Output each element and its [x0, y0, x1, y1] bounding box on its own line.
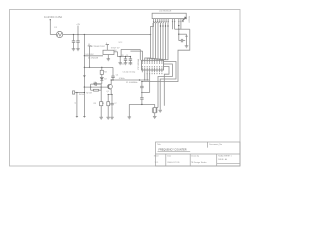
wire pin down to c5 — [142, 72, 150, 92]
regulator U2 body — [103, 50, 114, 54]
wire osc bottom — [129, 103, 154, 105]
title block value drawn — [191, 161, 207, 164]
resistor R5 vertical — [185, 36, 187, 45]
svg-text:9-12VDC 0.25A: 9-12VDC 0.25A — [44, 15, 62, 19]
wire R3 drop — [100, 87, 102, 102]
ground C7 — [110, 117, 114, 119]
wire collector rail — [111, 79, 149, 81]
ground C1 — [72, 49, 76, 51]
capacitor C4 — [111, 74, 118, 80]
ground C10 — [129, 63, 133, 65]
title block label Drawn — [191, 156, 199, 158]
svg-text:100n: 100n — [128, 64, 132, 66]
junction collector — [112, 79, 113, 80]
IC U1 inner top pin stubs — [142, 60, 162, 62]
power bar 5V mid — [88, 44, 92, 46]
title block label Document — [209, 143, 222, 146]
label VCC net — [119, 42, 123, 44]
wire input gnd drop — [76, 93, 78, 117]
svg-text:R4: R4 — [104, 71, 106, 73]
label C8 C9 values — [121, 55, 128, 57]
junction rail-reg — [84, 34, 85, 35]
wire top right horizontal — [175, 28, 190, 30]
junction feed low — [83, 75, 86, 77]
title block grid — [156, 142, 241, 166]
junction R4-D2 — [101, 78, 102, 79]
power arrow VCC right — [182, 17, 186, 21]
label VOUT — [111, 48, 120, 50]
regulator ground pin — [107, 55, 109, 59]
capacitor C5 — [140, 82, 143, 93]
capacitor C2 — [76, 35, 79, 49]
junction osc bottom — [141, 104, 142, 105]
ground crystal — [153, 117, 157, 119]
label C10 value — [121, 64, 132, 66]
wire crystal link — [156, 107, 158, 109]
capacitor C7 — [110, 95, 113, 107]
wire pin1 long vertical — [145, 20, 154, 60]
svg-text:Document_Nu: Document_Nu — [209, 143, 222, 146]
IC U1 pin numbers top — [142, 63, 162, 64]
IC U1 vertical label — [137, 58, 140, 69]
IC U1 pin numbers bottom — [142, 66, 162, 67]
wire cap branch — [112, 67, 114, 73]
junction p13 c — [178, 34, 179, 35]
junction 5V-c8 — [120, 56, 121, 57]
title block label Date — [167, 155, 171, 158]
svg-text:MC78L05/TO92: MC78L05/TO92 — [91, 46, 106, 48]
junction rail-c5 — [139, 79, 140, 80]
fuse F1 — [55, 27, 63, 38]
junction 5V mid — [89, 67, 90, 68]
wire input to fuse — [50, 34, 56, 36]
label C7 value — [114, 103, 116, 105]
ground R3 — [99, 117, 103, 119]
net label +9V stub — [76, 24, 80, 35]
title block label Title — [157, 143, 162, 146]
wire pin11 down — [174, 20, 176, 29]
svg-text:4 MHz: 4 MHz — [119, 78, 125, 80]
title block value sheet — [155, 162, 160, 164]
wire VCC to IC upper — [121, 49, 140, 56]
IC U1 pin numbers below — [147, 73, 163, 74]
wire input signal — [75, 92, 85, 94]
title block schematic title — [159, 149, 187, 152]
svg-text:9-12VDC: 9-12VDC — [86, 54, 95, 56]
svg-text:C3: C3 — [94, 82, 96, 84]
junction input node2 — [84, 92, 85, 93]
diode D2 — [100, 74, 106, 83]
junction rail-w — [141, 81, 142, 82]
label 9-12VDC supply input — [44, 15, 62, 19]
label R6 value — [102, 103, 104, 105]
svg-text:C7: C7 — [114, 103, 116, 105]
svg-text:KICAD SHEET 1: KICAD SHEET 1 — [218, 154, 231, 157]
label D1 net — [88, 57, 99, 59]
wire emitter — [110, 89, 112, 94]
crystal X1 — [152, 104, 157, 116]
IC U1 osc pin wire a — [144, 72, 145, 80]
resistor R6 — [107, 95, 110, 106]
junction mid-R4 — [101, 67, 102, 68]
resistor R2 bottom branch — [86, 87, 101, 94]
label input net — [79, 94, 85, 96]
svg-text:R3: R3 — [94, 103, 96, 105]
svg-text:Q1: Q1 — [106, 91, 109, 93]
crystal X1 label — [126, 82, 138, 84]
svg-text:R2 1M: R2 1M — [86, 92, 92, 94]
wire pin10 down — [172, 20, 174, 29]
label 4MHz — [119, 78, 125, 80]
wire 5V mid vertical — [89, 46, 91, 68]
wire VCC corner to pin14 — [139, 49, 141, 60]
capacitor C10 — [129, 57, 132, 63]
wire wrap outer — [142, 29, 190, 81]
junction p13 a — [178, 25, 179, 26]
connector J2 body — [152, 13, 186, 18]
wire emitter bar — [108, 94, 112, 96]
page border frame — [10, 10, 241, 167]
capacitor C6 — [140, 93, 143, 105]
connector J1 input — [73, 91, 75, 94]
junction bus dots — [160, 25, 169, 26]
capacitor C11 horizontal — [179, 39, 185, 42]
label LCD MODULE — [159, 11, 172, 13]
IC U1 osc pin wire b — [147, 72, 148, 80]
wire wrap inner2 — [164, 67, 170, 106]
svg-text:J1: J1 — [75, 102, 77, 104]
svg-text:J2CON14: J2CON14 — [189, 16, 191, 23]
svg-text:TB Design Studio: TB Design Studio — [191, 161, 207, 164]
resistor R3 — [94, 102, 103, 106]
wire input vertical — [49, 20, 51, 35]
label J1 vertical — [75, 102, 77, 104]
ground arrow input — [76, 116, 79, 118]
wire pin13 down — [178, 20, 180, 40]
svg-text:8: 8 — [106, 43, 107, 45]
junction rc right — [101, 86, 102, 87]
svg-text:X1 4.000MHz: X1 4.000MHz — [126, 82, 138, 84]
title block title underline — [158, 151, 191, 153]
junction 5V-c9 — [125, 56, 126, 57]
ground R6 — [106, 117, 110, 119]
wire rail down to regulator — [83, 35, 85, 56]
capacitor C9 — [124, 57, 127, 63]
wire input line — [84, 86, 107, 88]
junction p13 b — [178, 29, 179, 30]
ground osc left — [128, 117, 132, 119]
title block revision line2 — [218, 158, 227, 161]
svg-text:Drawn by: Drawn by — [191, 156, 199, 158]
junction feed mid — [84, 67, 85, 68]
junction rc left — [90, 86, 91, 87]
ground C8 — [118, 63, 122, 65]
ground D2 — [94, 82, 96, 85]
label osc caps — [123, 72, 136, 74]
resistor R4 — [100, 67, 107, 74]
svg-text:C5 22p C6 22p: C5 22p C6 22p — [123, 72, 136, 74]
ground wrap mid — [158, 110, 162, 112]
wire collector — [111, 79, 112, 84]
ground C9 — [124, 63, 128, 65]
ground C2 — [76, 49, 80, 51]
wire pin14 down — [180, 20, 182, 29]
svg-text:C4: C4 — [116, 74, 118, 76]
junction rail-C2 — [77, 34, 78, 35]
svg-text:FREQUENCY COUNTER: FREQUENCY COUNTER — [159, 149, 187, 152]
connector J2 vertical name — [189, 16, 191, 23]
svg-text:2006-OCT-26: 2006-OCT-26 — [167, 162, 180, 164]
wire VDD second line — [130, 51, 142, 60]
wire 5V node — [118, 56, 131, 58]
ground right cluster — [185, 46, 189, 48]
capacitor C3 top branch — [91, 82, 102, 87]
junction emitter a — [108, 94, 109, 95]
title block label Sheet — [154, 155, 159, 158]
junction emitter b — [111, 94, 112, 95]
svg-text:PIC16F84A: PIC16F84A — [137, 58, 140, 69]
regulator top pin VCC — [106, 43, 109, 50]
junction reg input — [84, 55, 85, 56]
wire osc gnd left — [128, 104, 130, 116]
wire R3 to gnd — [100, 106, 102, 117]
ground regulator — [107, 59, 111, 61]
label MAX632-5.0/TO92 — [91, 46, 106, 48]
wire wrap inner — [158, 64, 172, 108]
svg-text:+9V: +9V — [76, 24, 80, 26]
connector J2 pins — [154, 19, 184, 21]
svg-text:D2: D2 — [104, 79, 106, 81]
junction rail-LCD — [150, 34, 151, 35]
svg-text:Date: Date — [167, 155, 171, 158]
wire r-cluster mid — [179, 34, 187, 36]
title block value date — [167, 162, 180, 164]
wire wrap mid — [160, 62, 176, 110]
IC U1 body PIC16F84 — [142, 60, 164, 70]
svg-text:LCD MODULE: LCD MODULE — [159, 11, 172, 13]
svg-text:ISSUE : A4: ISSUE : A4 — [218, 158, 227, 161]
junction rail-C1 — [73, 34, 74, 35]
IC U1 bottom pins — [142, 68, 162, 72]
svg-text:Sheet: Sheet — [154, 155, 159, 158]
junction input gnd — [76, 92, 77, 93]
title block revision line1 — [218, 154, 231, 157]
wire middle branch — [84, 66, 113, 68]
wire regulator input — [84, 54, 103, 56]
svg-text:IN 1Hz: IN 1Hz — [79, 94, 85, 96]
wire left feed vertical — [83, 56, 85, 116]
transistor Q1 — [106, 84, 112, 93]
capacitor C1 — [72, 35, 75, 49]
wire D2 to ground — [95, 83, 102, 85]
svg-text:R6: R6 — [102, 103, 104, 105]
input terminal — [50, 19, 51, 20]
junction c5 — [141, 92, 142, 93]
svg-text:10u: 10u — [121, 64, 124, 66]
wire regulator output — [114, 50, 118, 56]
ground arrow left feed — [83, 116, 86, 118]
wire R6 gnd — [107, 106, 109, 117]
capacitor C8 lead — [119, 57, 121, 63]
wire 9V rail — [63, 34, 151, 36]
junction 5V-c10 — [130, 56, 131, 57]
junction input node — [84, 86, 85, 87]
svg-text:C8: C8 — [121, 55, 123, 57]
wire bus LCD data lines — [147, 20, 168, 60]
connector J2 pin numbers — [153, 21, 184, 22]
wire C7 gnd — [111, 106, 113, 117]
